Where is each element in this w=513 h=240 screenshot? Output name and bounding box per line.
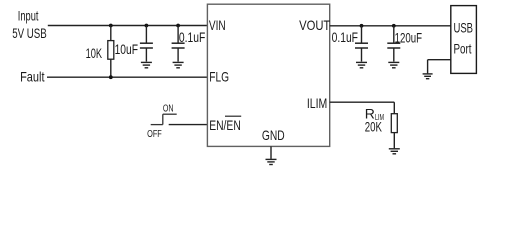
wire EN net xyxy=(169,124,208,126)
svg-text:0.1uF: 0.1uF xyxy=(179,29,205,45)
IC U1 box xyxy=(207,4,329,146)
svg-text:VIN: VIN xyxy=(209,17,226,33)
svg-text:Input: Input xyxy=(18,8,39,24)
ground (10uF) xyxy=(141,62,152,67)
svg-text:OFF: OFF xyxy=(147,128,162,140)
svg-text:10K: 10K xyxy=(86,45,103,61)
resistor R1 10K xyxy=(108,26,114,78)
ground (IC GND) xyxy=(266,159,277,164)
wire VOUT net xyxy=(330,25,451,27)
svg-text:USB: USB xyxy=(454,20,474,36)
svg-text:GND: GND xyxy=(262,127,285,143)
resistor RLIM xyxy=(391,114,397,149)
ground (USB Port) xyxy=(423,74,433,79)
ground (0.1uF output) xyxy=(356,62,367,67)
ground (RLIM) xyxy=(389,149,400,154)
junction dot input/0.1uF xyxy=(176,24,180,28)
svg-text:5V USB: 5V USB xyxy=(12,25,47,41)
wire VIN input net xyxy=(48,25,208,27)
svg-text:ILIM: ILIM xyxy=(307,95,327,111)
pin label EN/EN xyxy=(209,116,241,133)
wire ILIM net xyxy=(330,102,395,114)
node Input label xyxy=(12,8,47,41)
svg-text:10uF: 10uF xyxy=(115,41,138,57)
capacitor C4 120uF xyxy=(387,26,400,62)
capacitor C2 0.1uF input xyxy=(172,26,185,62)
svg-text:ON: ON xyxy=(163,103,174,115)
junction dot VOUT/120uF xyxy=(392,24,396,28)
switch ON/OFF waveform xyxy=(151,114,177,124)
connector USB Port box xyxy=(451,6,477,74)
junction dot input/10uF xyxy=(145,24,149,28)
svg-text:120uF: 120uF xyxy=(395,29,422,45)
svg-text:20K: 20K xyxy=(365,119,383,135)
capacitor C3 0.1uF output xyxy=(355,26,368,62)
junction dot VOUT/0.1uF xyxy=(360,24,364,28)
pin GND lead xyxy=(270,146,272,159)
capacitor C1 10uF xyxy=(140,26,153,62)
svg-text:Port: Port xyxy=(454,41,472,57)
ground (0.1uF input) xyxy=(173,62,184,67)
wire USB ground xyxy=(428,60,451,74)
junction dot Fault/10K xyxy=(109,75,113,79)
svg-text:FLG: FLG xyxy=(209,69,229,85)
svg-text:0.1uF: 0.1uF xyxy=(332,29,358,45)
ground (120uF) xyxy=(388,62,399,67)
svg-text:EN/EN: EN/EN xyxy=(209,117,241,133)
svg-text:Fault: Fault xyxy=(20,69,44,85)
svg-text:VOUT: VOUT xyxy=(299,17,331,33)
junction dot input/10K xyxy=(109,24,113,28)
wire Fault net xyxy=(47,76,207,78)
